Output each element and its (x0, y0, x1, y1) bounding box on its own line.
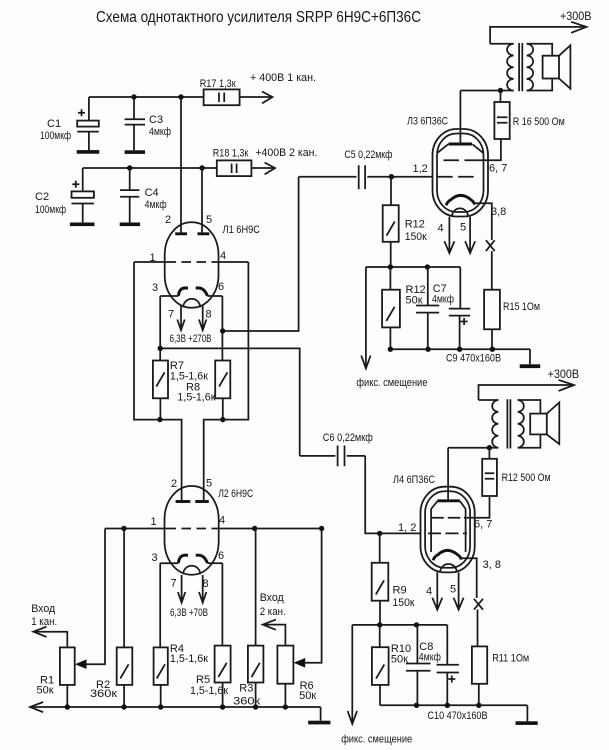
wire L2 cathode3 down to R4 (159, 563, 161, 647)
resistor R10 50k (372, 625, 411, 705)
svg-text:+ 400В 1 кан.: + 400В 1 кан. (250, 72, 316, 84)
node T2/R12-500 junction (487, 445, 492, 450)
svg-text:5: 5 (460, 222, 466, 234)
wire R17 to arrow (240, 96, 271, 98)
svg-text:100мкф: 100мкф (35, 204, 66, 216)
resistor R4 (154, 643, 208, 685)
wire L3 cathode to 3,8 (475, 203, 492, 240)
node rail1-C3 junction (131, 94, 136, 99)
wire L1 grid4 down-right rail to L2 anode5 (204, 262, 249, 502)
node L2 grid R3 junction (252, 526, 257, 531)
resistor R2 360k (90, 529, 132, 701)
wire R1 bottom stub (66, 685, 68, 707)
ground C2 (70, 223, 95, 227)
node C6/R9 junction (377, 531, 382, 536)
svg-text:R9: R9 (393, 585, 407, 597)
capacitor C3 (125, 97, 171, 150)
L2 cathode pin6 arc (196, 555, 208, 563)
input arrow Вход 2 кан. (260, 592, 286, 646)
svg-text:Л4 6П36С: Л4 6П36С (393, 474, 435, 486)
wire junction to C6 riser (160, 348, 300, 456)
svg-text:C1: C1 (47, 118, 61, 130)
svg-text:360к: 360к (90, 688, 117, 700)
ground bias ch2 (526, 705, 528, 721)
bias network ch1 top wire (366, 266, 460, 268)
node T1/R16 junction (498, 88, 503, 93)
node L2 grid right corner (319, 526, 324, 531)
L2 grid dashed (167, 528, 218, 530)
L2 envelope (165, 486, 219, 575)
svg-text:+300В: +300В (548, 367, 580, 381)
L3 heater pin4 arrow (444, 217, 454, 254)
svg-text:3, 8: 3, 8 (483, 559, 501, 571)
tube L2 6N9S (105, 478, 322, 620)
wire L4 cathode to 3,8 (461, 558, 477, 598)
L4 heater pin5 arrow (454, 572, 464, 609)
wire cathode pin3 stub (160, 295, 178, 297)
L3 envelope inner (437, 134, 484, 213)
resistor R5 (190, 646, 231, 697)
ground C1 (77, 150, 100, 154)
L4 envelope outer (421, 487, 475, 573)
resistor R8 (177, 361, 230, 404)
L1 envelope (165, 222, 219, 307)
capacitor C1 (40, 97, 99, 150)
input arrow Вход 1 кан. (31, 603, 67, 647)
wire X to R11 (477, 610, 479, 647)
transformer T2 primary (448, 400, 498, 448)
wire X to R15 (491, 251, 493, 290)
node L1 cathode3 branch junction (158, 346, 163, 351)
L2 bottom bump (183, 566, 200, 575)
wire L1 cathode6 down to R8 (221, 296, 223, 361)
wire R6 bottom stub (284, 684, 286, 707)
wire R4 bottom stub (160, 685, 162, 707)
svg-text:3: 3 (152, 282, 158, 294)
L3 screen grid dashed (pins 6,7) (444, 159, 478, 161)
node L1 cathode output junction (220, 328, 225, 333)
L2 heater pin8 arrow (199, 575, 206, 603)
speaker ch2 (530, 403, 559, 445)
wire C6 to L4 grid (365, 456, 420, 534)
L1 cathode pin6 arc (196, 288, 208, 296)
wire grid pin1 left (134, 261, 167, 263)
svg-text:1,5-1,6к: 1,5-1,6к (170, 653, 208, 665)
wire L3 anode up to transformer (459, 91, 461, 145)
svg-text:C10 470x160В: C10 470x160В (428, 710, 488, 722)
transformer T2 core (507, 399, 510, 448)
svg-text:С6 0,22мкф: С6 0,22мкф (323, 432, 373, 444)
svg-text:Вход: Вход (31, 603, 56, 615)
transformer T1 core (519, 43, 522, 91)
wire junction to C5 riser (223, 177, 299, 331)
svg-text:R11 1Ом: R11 1Ом (492, 653, 529, 665)
svg-text:фикс. смещение: фикс. смещение (341, 734, 412, 746)
svg-text:R18 1,3к: R18 1,3к (213, 148, 249, 160)
svg-text:4: 4 (438, 223, 444, 235)
node C7 top junction (425, 264, 430, 269)
node X mark ch1 (486, 240, 495, 251)
node C8 top junction (414, 622, 419, 627)
ground bias ch1 (529, 349, 531, 364)
tube L4 6P36S (393, 448, 501, 610)
L1 grid dashed (167, 261, 218, 263)
capacitor C4 (120, 168, 167, 223)
svg-text:6: 6 (218, 281, 224, 293)
capacitor C6 0,22mkf (300, 432, 373, 466)
node R8 bottom junction (220, 417, 225, 422)
wire L2 grid right (217, 528, 322, 530)
node R7 bottom junction (157, 417, 162, 422)
svg-text:5: 5 (206, 214, 212, 226)
svg-text:4: 4 (219, 515, 225, 527)
svg-text:R15 1Ом: R15 1Ом (503, 301, 540, 313)
L1 cathode pin3 arc (178, 288, 188, 296)
svg-text:C2: C2 (35, 191, 49, 203)
node C5/R12 junction (389, 174, 394, 179)
L3 control grid dashed (pins 1,2) (437, 176, 477, 178)
wire rail2 +400V ch2 (83, 167, 217, 169)
svg-text:4мкф: 4мкф (149, 126, 171, 138)
L3 bottom bump (452, 208, 468, 216)
wire L1 grid1 down-left rail to L2 anode2 (134, 262, 182, 502)
wire grid pin4 right (217, 261, 248, 263)
node bus left arrow (30, 702, 43, 712)
svg-text:+300В: +300В (560, 9, 592, 23)
wire screen to R12-500 (464, 496, 490, 518)
resistor R9 150k (372, 533, 415, 625)
capacitor C5 0,22mkf (299, 149, 433, 189)
node R10 top junction (377, 622, 382, 627)
node rail1-anode junction (178, 94, 183, 99)
svg-text:Л3 6П36С: Л3 6П36С (407, 116, 448, 128)
svg-text:2 кан.: 2 кан. (260, 606, 286, 618)
transformer T2 secondary (518, 400, 541, 448)
L4 envelope inner (425, 491, 470, 568)
node bus junctions (65, 704, 70, 709)
L3 dome structure (438, 144, 484, 153)
L4 cathode arc (433, 550, 461, 560)
node rail2-anode junction (199, 165, 204, 170)
svg-text:150к: 150к (405, 231, 427, 243)
resistor R3 360k (233, 529, 263, 708)
wire cathode pin6 stub (207, 562, 222, 564)
svg-text:R17 1,3к: R17 1,3к (200, 78, 236, 90)
svg-text:3,8: 3,8 (491, 206, 506, 218)
L1 heater pin7 arrow (177, 305, 184, 330)
svg-text:1,5-1,6к: 1,5-1,6к (177, 392, 215, 404)
wire anode pin5 to rail2 (201, 168, 203, 234)
resistor R11 1Om (472, 646, 529, 705)
wire screen to R16 (477, 139, 501, 160)
wire bottom bus (33, 706, 321, 708)
capacitor C10 470x160V electrolytic (428, 625, 488, 722)
bias network ch1 bottom wire (390, 348, 530, 350)
svg-text:150к: 150к (393, 597, 415, 609)
L2 cathode pin3 arc (178, 555, 188, 563)
wire R6 wiper feed from L2 grid corner (305, 529, 322, 663)
node bias2 bottom junctions (414, 703, 419, 708)
svg-text:+400В 2 кан.: +400В 2 кан. (255, 147, 317, 159)
svg-text:4мкф: 4мкф (419, 652, 441, 664)
svg-text:3: 3 (152, 552, 158, 564)
resistor R12 150k (383, 177, 427, 267)
ground C4 (120, 223, 140, 227)
L2 anode pin5 bar (195, 500, 209, 503)
L4 screen grid dashed (pins 6,7) (431, 517, 464, 519)
wire L2 grid left (105, 528, 167, 530)
svg-text:R12: R12 (405, 219, 425, 231)
L4 heater pin4 arrow (432, 572, 442, 609)
svg-text:1,2: 1,2 (413, 163, 428, 175)
svg-text:4: 4 (426, 586, 432, 598)
ground C3 (125, 150, 145, 154)
capacitor C7 4mkf (416, 267, 454, 349)
transformer T1 secondary (527, 44, 553, 91)
wire R3 bottom stub (255, 683, 257, 708)
node +400V 1 kan arrow (262, 92, 273, 104)
potentiometer R6 50k (277, 646, 316, 702)
L3 heater pin5 arrow (465, 217, 475, 254)
svg-text:5: 5 (206, 478, 212, 490)
svg-text:C4: C4 (145, 187, 159, 199)
L4 anode bar (437, 499, 460, 502)
svg-text:1: 1 (151, 516, 157, 528)
node L2 grid R2 junction (121, 526, 126, 531)
svg-text:Л2 6Н9С: Л2 6Н9С (218, 488, 253, 500)
capacitor C9 470x160V electrolytic (446, 267, 501, 365)
svg-text:50к: 50к (37, 685, 54, 697)
wire R2 bottom stub (123, 685, 125, 707)
node +400V 2 kan arrow (265, 163, 276, 175)
node rail2-C4 junction (127, 165, 132, 170)
wire L1 cathode3 down to R7 (159, 296, 161, 361)
L4 control grid dashed (pins 1,2) (428, 532, 467, 534)
L2 heater pin7 arrow (178, 575, 185, 603)
L3 cathode arc (446, 195, 474, 205)
svg-text:C9 470x160В: C9 470x160В (446, 353, 501, 365)
node R6 wiper arrow (294, 658, 306, 668)
L4 bottom bump (440, 564, 457, 572)
L1 heater pin8 arrow (199, 305, 206, 330)
tube L3 6P36S (407, 91, 507, 254)
wire L2 cathode6 down to R5 (221, 563, 223, 645)
wire cathode pin6 stub (207, 295, 222, 297)
svg-text:6, 7: 6, 7 (474, 519, 492, 531)
svg-text:R 16 500 Ом: R 16 500 Ом (513, 116, 565, 128)
resistor R17 1,3k (200, 78, 240, 105)
svg-text:4мкф: 4мкф (432, 294, 454, 306)
resistor R16 500 Om (494, 91, 564, 140)
wire R1 wiper feed from L2 grid (86, 529, 105, 665)
wire anode pin2 to rail1 (180, 97, 182, 234)
svg-text:1, 2: 1, 2 (398, 522, 416, 534)
speaker ch1 (543, 45, 571, 88)
svg-text:фикс. смещение: фикс. смещение (356, 377, 427, 389)
tube U: triode L1 6N9S (134, 97, 260, 345)
svg-text:8: 8 (203, 578, 209, 590)
ground bottom bus (320, 707, 322, 721)
L2 anode pin2 bar (176, 500, 191, 503)
svg-text:50к: 50к (391, 654, 408, 666)
svg-text:R12 500 Ом: R12 500 Ом (502, 472, 551, 484)
svg-text:Вход: Вход (260, 592, 285, 604)
resistor R18 1,3k (213, 148, 252, 177)
node X mark ch2 (474, 599, 483, 610)
svg-text:C3: C3 (149, 114, 163, 126)
L1 anode pin5 bar (198, 232, 210, 235)
wire R18 to arrow (251, 167, 273, 169)
node R12b top junction (388, 264, 393, 269)
svg-text:Схема однотактного усилителя S: Схема однотактного усилителя SRPP 6Н9С+6… (96, 9, 421, 26)
wire L4 anode up to transformer (447, 448, 449, 501)
power +300V ch1 (490, 9, 591, 44)
svg-text:2: 2 (165, 214, 171, 226)
L1 bottom bump (183, 299, 200, 307)
arrow fixed bias ch1 (356, 267, 427, 389)
resistor R12 50k (382, 267, 426, 349)
resistor R12 500 Om (482, 448, 550, 496)
svg-text:Л1 6Н9С: Л1 6Н9С (223, 224, 261, 236)
node R1 wiper arrow (75, 659, 87, 669)
L4 dome structure (431, 501, 466, 552)
transformer T1 primary (460, 44, 513, 91)
svg-text:1 кан.: 1 кан. (31, 616, 57, 628)
L1 anode pin2 bar (175, 232, 187, 235)
wire cathode pin3 stub (160, 562, 178, 564)
wire R7 bottom stub (159, 398, 161, 419)
wire rail1 +400V ch1 (89, 96, 204, 98)
node bias1 bottom junctions (388, 347, 393, 352)
svg-text:6, 7: 6, 7 (489, 163, 507, 175)
svg-text:С5 0,22мкф: С5 0,22мкф (344, 149, 392, 161)
L3 anode bar (448, 143, 472, 146)
resistor R7 (153, 360, 208, 398)
svg-text:2: 2 (171, 478, 177, 490)
capacitor C8 4mkf (406, 625, 441, 705)
svg-text:1: 1 (150, 252, 156, 264)
potentiometer R1 50k (37, 647, 75, 696)
power +300V ch2 (479, 367, 580, 400)
svg-text:100мкф: 100мкф (40, 130, 71, 142)
svg-text:4: 4 (220, 250, 226, 262)
svg-text:6,3В +70В: 6,3В +70В (170, 607, 208, 619)
svg-text:8: 8 (206, 309, 212, 321)
arrow fixed bias ch2 (341, 625, 412, 746)
svg-text:50к: 50к (299, 690, 316, 702)
bias network ch2 top wire (352, 624, 447, 626)
svg-text:R3: R3 (239, 683, 253, 695)
svg-text:7: 7 (171, 578, 177, 590)
svg-text:4мкф: 4мкф (145, 199, 167, 211)
svg-text:6,3В +270В: 6,3В +270В (170, 333, 212, 345)
capacitor C2 (35, 168, 94, 223)
bias network ch2 bottom wire (380, 704, 527, 706)
svg-text:5: 5 (450, 584, 456, 596)
wire R8 bottom stub (222, 398, 224, 419)
svg-text:6: 6 (218, 550, 224, 562)
svg-text:7: 7 (168, 309, 174, 321)
L3 envelope outer (433, 129, 489, 217)
resistor R15 1Om (484, 290, 540, 350)
wire R5 bottom stub (222, 683, 224, 708)
